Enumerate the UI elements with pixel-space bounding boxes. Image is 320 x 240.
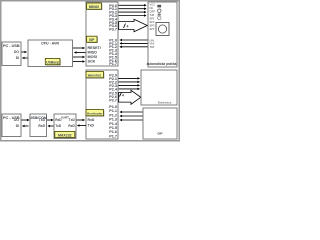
svg-text:VAX: VAX	[150, 42, 155, 46]
svg-text:SCK: SCK	[88, 60, 96, 64]
bus arrow MCU to klavesnica	[119, 90, 141, 104]
USB/COM box	[29, 114, 47, 137]
wires UART to MCU	[77, 119, 85, 121]
svg-text:TxD: TxD	[88, 124, 95, 128]
MCU top box	[86, 2, 118, 66]
CPU-AVR box	[28, 40, 73, 67]
svg-text:RxD: RxD	[55, 118, 62, 122]
svg-text:MOSI: MOSI	[88, 55, 97, 59]
svg-text:RESET/: RESET/	[88, 46, 101, 50]
svg-text:PC - USB: PC - USB	[3, 44, 20, 48]
outer frame	[1, 1, 180, 141]
wires PC-USB to USB/COM	[22, 119, 30, 121]
svg-text:SP3: SP3	[150, 24, 155, 28]
ISP label	[87, 37, 98, 43]
svg-text:SP1: SP1	[150, 17, 155, 21]
wires DIP to MCU	[120, 111, 143, 113]
klavesnica box	[141, 70, 177, 105]
svg-text:DO: DO	[14, 118, 19, 122]
wire PC-USB to CPU DO	[22, 51, 27, 53]
svg-text:P2.7: P2.7	[109, 98, 117, 102]
label MB02/RS232	[87, 72, 105, 78]
svg-text:NC: NC	[150, 6, 154, 10]
svg-text:RxD: RxD	[38, 124, 45, 128]
svg-text:P1.7: P1.7	[109, 134, 117, 138]
svg-text:P1.7: P1.7	[109, 62, 117, 66]
button icon	[156, 23, 169, 36]
svg-text:RxD: RxD	[68, 124, 75, 128]
MCU bottom box	[86, 70, 118, 139]
wires USB/COM to UART	[47, 119, 53, 121]
svg-text:DIP: DIP	[157, 132, 162, 136]
UART box	[54, 114, 76, 139]
wires MCU P2.0-P2.3 to klavesnica	[119, 77, 140, 79]
wire CPU to PC-USB DI	[23, 57, 28, 59]
svg-text:MB05RS1: MB05RS1	[88, 73, 102, 77]
ISP wires CPU to MCU	[73, 47, 85, 49]
svg-text:TAP: TAP	[150, 45, 155, 49]
svg-text:CPU - AVR: CPU - AVR	[41, 42, 59, 46]
svg-text:TxB: TxB	[150, 13, 155, 17]
svg-text:P3.7: P3.7	[109, 28, 117, 32]
svg-text:4: 4	[122, 94, 124, 98]
pracka box	[147, 2, 177, 67]
bus arrow MCU to pracka	[119, 19, 148, 31]
svg-text:automatická práčka: automatická práčka	[147, 62, 177, 66]
indicator icons	[157, 5, 161, 8]
PC-USB box top	[2, 42, 21, 66]
svg-text:SPT: SPT	[150, 27, 155, 31]
svg-text:MISO: MISO	[88, 51, 98, 55]
svg-text:ISP: ISP	[89, 38, 95, 42]
svg-text:MAX232: MAX232	[58, 133, 72, 137]
MAX232 label	[56, 132, 76, 138]
svg-text:TxD: TxD	[55, 124, 62, 128]
wires MCU P3.0-P3.3 to pracka	[119, 4, 147, 6]
svg-text:TxD: TxD	[69, 118, 76, 122]
Bootloader label	[87, 110, 105, 116]
svg-text:4: 4	[127, 25, 129, 29]
label MB02	[87, 4, 102, 10]
svg-text:CRP: CRP	[150, 10, 156, 14]
svg-text:Bootloader: Bootloader	[87, 111, 103, 115]
svg-text:DO: DO	[14, 50, 19, 54]
USBasp label	[46, 59, 61, 65]
svg-text:USBasp: USBasp	[46, 60, 59, 64]
DIP box	[143, 108, 177, 139]
svg-text:TxD: TxD	[39, 118, 46, 122]
svg-text:SP2: SP2	[150, 20, 155, 24]
svg-text:Klávesnica: Klávesnica	[158, 100, 172, 104]
svg-text:VCC: VCC	[150, 3, 156, 7]
svg-text:UIN: UIN	[150, 38, 155, 42]
wires pracka to MCU P1	[120, 39, 148, 41]
svg-text:RxD: RxD	[88, 118, 95, 122]
svg-text:DI: DI	[16, 124, 19, 128]
PC-USB box bottom	[2, 114, 21, 137]
svg-text:DI: DI	[16, 56, 19, 60]
svg-text:MB302: MB302	[89, 5, 100, 9]
